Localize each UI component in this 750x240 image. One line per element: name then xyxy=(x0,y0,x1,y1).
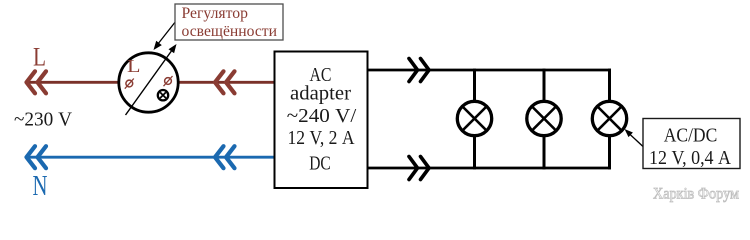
svg-text:L: L xyxy=(127,56,141,76)
arrow chevrons on N wire (right) xyxy=(215,146,235,168)
wire DC bottom rail xyxy=(368,167,611,170)
callout arrow to lamp EL3 xyxy=(625,129,644,147)
dimmer circle body xyxy=(119,53,178,112)
arrow chevrons on L wire (left) xyxy=(27,71,47,93)
callout leader arrow to dimmer xyxy=(154,21,177,50)
terminal symbol right xyxy=(164,76,173,86)
branch wire 1 xyxy=(473,69,476,170)
AC adapter value text xyxy=(287,64,357,175)
AC adapter box xyxy=(275,52,368,189)
lamp EL1 xyxy=(457,101,491,135)
svg-text:12 V, 2 A: 12 V, 2 A xyxy=(288,127,355,149)
arrow chevrons on L wire (right) xyxy=(215,71,235,93)
svg-text:освещённости: освещённости xyxy=(182,23,278,40)
indicator lamp inside dimmer xyxy=(158,90,168,100)
lamp EL2 xyxy=(527,101,561,135)
lamp EL3 xyxy=(592,101,626,135)
branch wire 2 xyxy=(543,69,546,170)
svg-text:12 V, 0,4 A: 12 V, 0,4 A xyxy=(649,147,731,169)
svg-text:adapter: adapter xyxy=(290,83,351,105)
branch wire 3 xyxy=(608,69,611,170)
svg-text:DC: DC xyxy=(309,153,331,175)
svg-text:Харків Форум: Харків Форум xyxy=(653,186,739,203)
callout box: AC/DC 12 V, 0,4 A xyxy=(643,119,740,170)
wire L right segment xyxy=(178,81,275,84)
svg-text:~240 V/: ~240 V/ xyxy=(287,105,357,127)
svg-text:~230 V: ~230 V xyxy=(14,109,73,131)
callout box: Регулятор освещённости xyxy=(175,4,283,40)
dimmer adjustment arrow xyxy=(126,44,177,115)
svg-text:Регулятор: Регулятор xyxy=(182,5,249,22)
arrow chevrons on top rail xyxy=(409,59,429,82)
wire L left segment xyxy=(26,81,120,84)
svg-text:AC/DC: AC/DC xyxy=(664,125,718,147)
arrow chevrons on N wire (left) xyxy=(27,146,47,168)
svg-text:L: L xyxy=(33,43,46,72)
arrow chevrons on bottom rail xyxy=(409,157,429,180)
terminal symbol left xyxy=(125,79,134,89)
wire N xyxy=(26,156,275,159)
svg-text:N: N xyxy=(33,171,48,202)
wire DC top rail xyxy=(368,69,611,72)
